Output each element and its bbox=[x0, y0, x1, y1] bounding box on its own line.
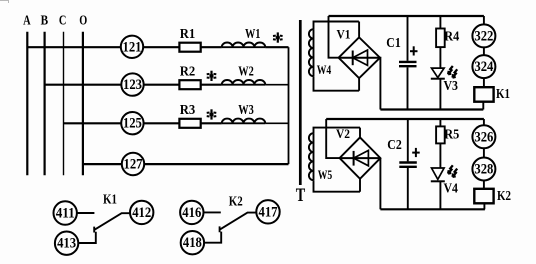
svg-text:K1: K1 bbox=[496, 86, 510, 101]
wire 127 to primary collector bbox=[144, 163, 288, 165]
relay coil K2 bbox=[474, 188, 511, 203]
indicator 322 bbox=[472, 24, 495, 47]
winding W1 bbox=[222, 26, 266, 47]
svg-text:K2: K2 bbox=[497, 188, 511, 203]
terminal 121 bbox=[121, 36, 143, 58]
wire row2 from bus B to terminal 123 bbox=[45, 84, 122, 86]
phase label B bbox=[41, 14, 49, 29]
phase label C bbox=[59, 14, 67, 29]
svg-text:R5: R5 bbox=[444, 127, 459, 142]
wire top bus2 to indicator 326 bbox=[483, 119, 485, 125]
wire W1 to primary collector bbox=[265, 46, 288, 48]
svg-text:W3: W3 bbox=[238, 102, 254, 117]
svg-text:T: T bbox=[296, 185, 306, 206]
LED V3 bbox=[431, 68, 458, 109]
wire V1 left corner to top bus bbox=[329, 16, 339, 58]
wire K1 coil to bottom bus bbox=[482, 102, 484, 110]
terminal 123 bbox=[121, 73, 143, 95]
wire row3 from bus C to terminal 125 bbox=[64, 122, 122, 124]
svg-text:C1: C1 bbox=[386, 35, 401, 50]
terminal 127 bbox=[122, 153, 144, 175]
relay coil K1 bbox=[474, 86, 510, 102]
wire K2 coil to bottom bus2 bbox=[483, 203, 485, 209]
polarity asterisk row2 bbox=[207, 71, 217, 81]
svg-text:121: 121 bbox=[123, 38, 142, 55]
wire V2 left corner to top bus2 bbox=[326, 119, 339, 158]
svg-text:127: 127 bbox=[124, 156, 143, 173]
wire 326 to 328 bbox=[483, 148, 485, 157]
svg-text:412: 412 bbox=[132, 204, 151, 221]
wire V1 right corner to bottom bus bbox=[379, 58, 381, 110]
wire row1 from bus A to terminal 121 bbox=[27, 46, 121, 48]
top bus section2 bbox=[326, 118, 484, 120]
polarity asterisk row1 bbox=[273, 32, 283, 42]
wire 328 to K2 coil bbox=[483, 181, 485, 190]
wire row4 from bus O to terminal 127 bbox=[83, 163, 122, 165]
contact terminal 416 bbox=[180, 201, 203, 224]
svg-text:V3: V3 bbox=[443, 78, 458, 93]
svg-text:125: 125 bbox=[123, 115, 142, 132]
svg-text:W5: W5 bbox=[318, 168, 333, 182]
svg-text:V1: V1 bbox=[337, 27, 351, 42]
svg-text:W2: W2 bbox=[238, 63, 254, 78]
phase label A bbox=[23, 14, 31, 29]
svg-text:W4: W4 bbox=[317, 63, 332, 77]
terminal 125 bbox=[121, 112, 143, 134]
svg-text:B: B bbox=[41, 14, 49, 29]
svg-text:V4: V4 bbox=[443, 181, 458, 196]
LED V4 bbox=[431, 168, 458, 209]
wire 416 fixed contact bbox=[204, 211, 221, 213]
svg-text:K1: K1 bbox=[103, 192, 117, 207]
phase bus B (vertical wire) bbox=[43, 32, 45, 176]
svg-text:R3: R3 bbox=[180, 102, 196, 117]
wire 418 to arm pivot bbox=[204, 232, 221, 243]
svg-text:R1: R1 bbox=[180, 26, 196, 41]
phase bus C (vertical wire) bbox=[63, 32, 65, 176]
resistor R1 bbox=[179, 26, 200, 52]
wire 123 to R2 bbox=[144, 84, 180, 86]
top bus section1 bbox=[329, 15, 484, 17]
wire R3 to W3 bbox=[201, 122, 222, 124]
svg-text:328: 328 bbox=[474, 161, 493, 178]
wire R2 to W2 bbox=[201, 84, 222, 86]
indicator 324 bbox=[472, 55, 495, 78]
light arrows V4 bbox=[448, 165, 457, 177]
bottom bus section1 bbox=[380, 108, 483, 110]
svg-text:324: 324 bbox=[474, 58, 493, 75]
polarity asterisk row3 bbox=[207, 109, 217, 119]
wire W2 to primary collector bbox=[265, 84, 288, 86]
wire 324 to K1 coil bbox=[483, 78, 485, 87]
svg-text:A: A bbox=[23, 14, 31, 29]
svg-text:W1: W1 bbox=[245, 26, 261, 41]
wire 125 to R3 bbox=[144, 122, 180, 124]
contact terminal 411 bbox=[53, 201, 76, 224]
secondary winding W4 bbox=[309, 22, 359, 91]
contact K2 label bbox=[229, 193, 243, 208]
svg-text:K2: K2 bbox=[229, 193, 243, 208]
wire V2 right corner to bottom bus2 bbox=[379, 158, 381, 209]
wire top bus to indicator 322 bbox=[483, 16, 485, 24]
bridge rectifier V2 bbox=[336, 126, 380, 192]
phase bus A (vertical wire) bbox=[26, 32, 28, 176]
contact K2 moving arm bbox=[220, 213, 257, 233]
svg-text:C: C bbox=[59, 14, 67, 29]
svg-text:416: 416 bbox=[182, 204, 201, 221]
contact terminal 418 bbox=[181, 231, 204, 254]
light arrows V3 bbox=[448, 66, 457, 78]
contact K1 moving arm bbox=[94, 213, 130, 232]
plus sign C1 bbox=[410, 46, 418, 55]
svg-text:123: 123 bbox=[123, 76, 142, 93]
svg-text:418: 418 bbox=[183, 234, 202, 251]
contact terminal 413 bbox=[55, 232, 78, 255]
wire W3 to primary collector bbox=[265, 122, 288, 124]
svg-text:C2: C2 bbox=[387, 137, 402, 152]
resistor R2 bbox=[179, 63, 200, 89]
contact K1 label bbox=[103, 192, 117, 207]
primary collector wire bbox=[288, 47, 290, 164]
capacitor C2 bbox=[387, 119, 417, 209]
wire 413 to arm pivot bbox=[78, 232, 96, 243]
resistor R5 bbox=[436, 119, 459, 168]
transformer core bbox=[299, 20, 302, 185]
svg-text:O: O bbox=[79, 14, 87, 29]
svg-text:322: 322 bbox=[474, 27, 493, 44]
capacitor C1 bbox=[386, 16, 416, 110]
contact terminal 412 bbox=[130, 201, 153, 224]
svg-text:V2: V2 bbox=[336, 126, 350, 141]
svg-text:411: 411 bbox=[56, 205, 75, 222]
wire 322 to 324 bbox=[483, 47, 485, 55]
resistor R3 bbox=[179, 102, 200, 128]
wire 121 to R1 bbox=[143, 46, 179, 48]
phase bus O (vertical wire) bbox=[82, 32, 84, 176]
transformer label T bbox=[296, 185, 306, 206]
phase label O bbox=[79, 14, 87, 29]
indicator 326 bbox=[472, 125, 495, 148]
wire 411 fixed contact bbox=[77, 212, 95, 214]
indicator 328 bbox=[472, 158, 495, 181]
bridge rectifier V1 bbox=[337, 22, 381, 91]
wire R1 to W1 bbox=[201, 46, 222, 48]
svg-text:R4: R4 bbox=[444, 28, 459, 43]
secondary winding W5 bbox=[309, 128, 360, 192]
bottom bus section2 bbox=[380, 208, 485, 210]
svg-text:326: 326 bbox=[474, 128, 493, 145]
plus sign C2 bbox=[412, 148, 420, 157]
winding W3 bbox=[222, 102, 266, 123]
svg-text:417: 417 bbox=[259, 203, 278, 220]
contact terminal 417 bbox=[256, 200, 279, 223]
svg-text:413: 413 bbox=[57, 235, 76, 252]
svg-text:R2: R2 bbox=[180, 63, 196, 78]
winding W2 bbox=[222, 63, 266, 84]
resistor R4 bbox=[436, 16, 459, 68]
